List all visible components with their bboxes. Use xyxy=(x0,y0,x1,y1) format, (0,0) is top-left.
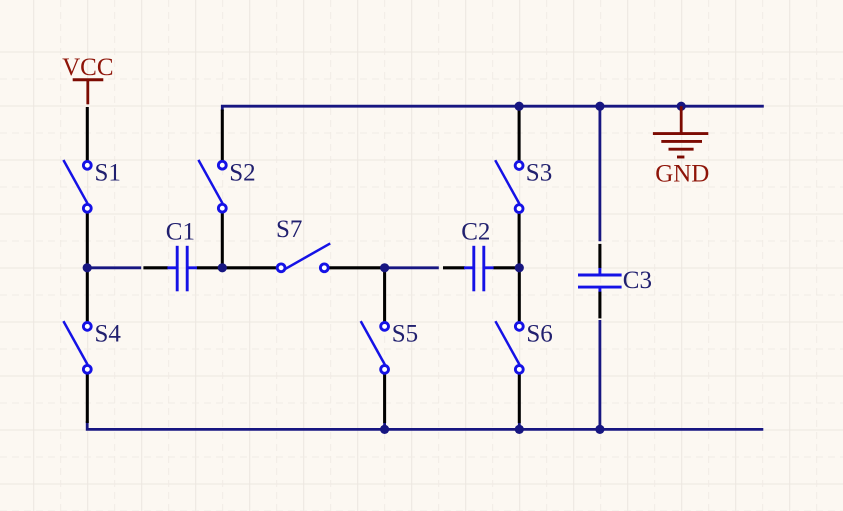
svg-text:C2: C2 xyxy=(461,218,490,245)
svg-text:S2: S2 xyxy=(229,159,255,186)
svg-text:GND: GND xyxy=(655,161,709,188)
svg-text:C3: C3 xyxy=(623,267,652,294)
svg-text:VCC: VCC xyxy=(62,54,113,81)
svg-text:S3: S3 xyxy=(526,159,552,186)
svg-text:S7: S7 xyxy=(276,216,302,243)
svg-text:S5: S5 xyxy=(392,321,418,348)
svg-text:C1: C1 xyxy=(166,218,195,245)
svg-text:S6: S6 xyxy=(526,321,552,348)
svg-text:S1: S1 xyxy=(95,159,121,186)
svg-text:S4: S4 xyxy=(95,321,122,348)
